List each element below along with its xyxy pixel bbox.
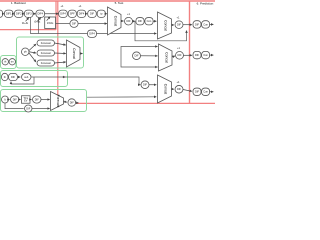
row2 end arrow: [210, 54, 214, 56]
circle D1: [2, 96, 9, 103]
B output long wire to row3 circle: [31, 77, 140, 85]
green box C bottom: [1, 90, 87, 112]
arrow B2-B3: [18, 76, 21, 78]
row2 rect wire: [121, 47, 158, 68]
svg-text:Con: Con: [203, 90, 208, 94]
pill P4: [36, 10, 45, 17]
trap3 out: [172, 56, 175, 57]
svg-text:DIF4: DIF4: [79, 12, 85, 16]
wire y23.5 to mux1: [56, 23, 108, 25]
pill B2: [9, 73, 18, 80]
pill F2: [37, 50, 55, 56]
B loop wire: [11, 77, 34, 84]
svg-text:DIF: DIF: [35, 97, 40, 101]
pill chain backtest: pill P0 clipped: [0, 10, 45, 17]
svg-text:Concat: Concat: [164, 52, 168, 63]
pill P9: [97, 10, 105, 17]
mux C out: [64, 101, 67, 104]
pill P2: [14, 10, 23, 17]
red border box3 left: [189, 1, 191, 104]
red prediction wire bottom: [76, 102, 215, 104]
arrow P11 trap2: [153, 20, 156, 22]
junction drop wire x135 to y40.5 right to 186.5 up arrow: [135, 21, 187, 41]
svg-text:DIF: DIF: [126, 19, 131, 23]
trap4: [158, 75, 172, 103]
arrows in test row: [86, 13, 107, 15]
svg-text:Concat: Concat: [164, 84, 168, 95]
svg-text:1%0s: 1%0s: [47, 21, 54, 25]
rect D3: [22, 96, 31, 104]
circle ph: [22, 48, 30, 56]
svg-text:DIF2: DIF2: [16, 12, 22, 16]
circle C2: [125, 17, 133, 25]
G1 mux out stub: [80, 53, 83, 55]
svg-text:sub: sub: [24, 75, 29, 79]
diag arrow from box: [47, 17, 51, 21]
two-circle green box: [1, 56, 17, 69]
G1 mux: [67, 40, 81, 67]
dark arrow head on red wire: [76, 102, 79, 104]
mux1 trapezoid: [108, 7, 122, 35]
svg-text:DIF3: DIF3: [26, 12, 32, 16]
arrow P4 to P5 crossing border: [45, 13, 59, 15]
svg-text:Concat: Concat: [114, 16, 118, 27]
svg-text:Forecast: Forecast: [41, 41, 51, 45]
row1 end arrow: [210, 23, 214, 25]
test pills row: [59, 10, 106, 17]
svg-text:Forecast: Forecast: [41, 51, 51, 55]
circle D5: [25, 105, 33, 112]
trap4 out: [172, 88, 175, 90]
svg-text:DIF: DIF: [177, 87, 182, 91]
svg-text:5. Test: 5. Test: [115, 1, 124, 5]
arrows pills to mux: [55, 43, 66, 63]
svg-text:DIF: DIF: [11, 75, 16, 79]
green box G1: [17, 37, 84, 68]
svg-text:Concat: Concat: [72, 48, 76, 59]
svg-text:DIF: DIF: [195, 22, 200, 26]
arrows between pills: [3, 13, 59, 15]
circle B1: [1, 73, 8, 80]
pill P6: [68, 10, 76, 17]
pill P7: [77, 10, 86, 17]
svg-text:t0+Δt: t0+Δt: [34, 19, 40, 23]
arrowhead at B exit: [62, 76, 66, 78]
svg-text:Forecast: Forecast: [41, 61, 51, 65]
svg-text:Con: Con: [203, 53, 208, 57]
svg-text:DIF1: DIF1: [6, 12, 12, 16]
trap2 out: [172, 24, 175, 26]
pill P3: [24, 10, 33, 17]
svg-text:DIF: DIF: [26, 106, 31, 110]
svg-text:Forecast: Forecast: [56, 95, 60, 108]
pills P15 P16: [193, 51, 201, 58]
circle C3: [175, 21, 183, 29]
trap3: [159, 44, 173, 71]
svg-text:DIF: DIF: [70, 100, 75, 104]
pill P1: [4, 10, 13, 17]
mux C: [51, 92, 64, 111]
ellipse B3: [22, 73, 32, 81]
svg-text:DIF4: DIF4: [89, 32, 95, 36]
box 1%0s: [45, 17, 56, 29]
arrow crossing red row2: [184, 54, 193, 56]
pills P10 P11: [136, 18, 144, 25]
wire long horizontal y33.5 with corner drop: [31, 17, 157, 34]
pill P8: [88, 10, 97, 17]
trap2: [158, 12, 172, 39]
pill F3: [37, 60, 55, 66]
red top border line: [0, 0, 215, 2]
svg-text:SPF: SPF: [70, 12, 75, 16]
svg-text:EV: EV: [24, 100, 28, 103]
svg-text:t0+Δt: t0+Δt: [22, 21, 28, 25]
green box B: [1, 71, 68, 87]
pill D4: [33, 96, 42, 103]
circle C5: [176, 52, 184, 60]
mux1 out arrow: [121, 20, 124, 22]
svg-text:DIF: DIF: [177, 53, 182, 57]
arrow crossing red row3: [183, 90, 192, 92]
black wire lower into trap4: [87, 96, 157, 98]
svg-text:DIF: DIF: [13, 97, 18, 101]
svg-text:6. Prediction: 6. Prediction: [197, 1, 214, 5]
svg-text:DIF: DIF: [138, 19, 143, 23]
svg-text:DIF: DIF: [195, 53, 200, 57]
svg-text:DIF4: DIF4: [60, 12, 66, 16]
pill F1: [37, 40, 55, 46]
fan arrows: [29, 44, 36, 62]
red border box2 left / feedback arrow into bottom mux: [57, 1, 59, 102]
wire drop from chain x38.4: [37, 17, 39, 33]
circle C1: [70, 20, 78, 28]
svg-text:DIF: DIF: [72, 22, 77, 26]
pill D2: [11, 96, 20, 103]
svg-text:1. Backtest: 1. Backtest: [11, 1, 26, 5]
svg-text:DIF: DIF: [177, 23, 182, 27]
pill P12 on long wire: [88, 30, 97, 37]
pill P5: [59, 10, 68, 17]
circle C4: [133, 52, 141, 60]
lower loop wire: [5, 103, 24, 109]
svg-text:DIF: DIF: [90, 12, 95, 16]
svg-text:Concat: Concat: [164, 20, 168, 31]
pills P13 P14: [193, 21, 201, 28]
circle C8 output: [68, 99, 76, 106]
circle C6 row3: [141, 81, 149, 89]
circle C7: [175, 85, 183, 93]
svg-text:Con: Con: [147, 19, 152, 23]
diag arrow 1: [26, 18, 29, 22]
diag arrow 2: [37, 18, 41, 22]
svg-text:DIF4: DIF4: [37, 12, 43, 16]
row3 end arrow: [210, 91, 214, 93]
arrow crossing red row1: [183, 24, 192, 26]
red box 1 right edge: [55, 1, 57, 30]
red box 1 bottom edge: [0, 29, 56, 31]
svg-text:DIF: DIF: [195, 90, 200, 94]
svg-text:DIF: DIF: [143, 83, 148, 87]
svg-text:DIF: DIF: [134, 54, 139, 58]
svg-text:Con: Con: [203, 22, 208, 26]
pills P17 P18: [193, 88, 201, 95]
